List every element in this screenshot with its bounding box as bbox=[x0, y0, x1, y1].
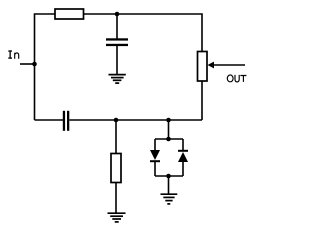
capacitor C1 bbox=[106, 38, 128, 46]
resistor R2 bbox=[111, 154, 121, 183]
node junction at In bbox=[32, 62, 37, 67]
wire diode bottom rail bbox=[155, 175, 183, 177]
wire left diode lower lead bbox=[154, 161, 156, 176]
wire right diode lower lead bbox=[182, 162, 184, 176]
wire right below potentiometer bbox=[201, 81, 203, 120]
node junction top (C1 tap) bbox=[115, 12, 120, 17]
wire input lead bbox=[20, 63, 35, 65]
wire diode pair top lead bbox=[168, 120, 170, 139]
wire right diode upper lead bbox=[182, 139, 184, 151]
diode D1 (cathode down) bbox=[150, 150, 160, 161]
potentiometer VR1 body bbox=[198, 52, 208, 82]
label In bbox=[8, 50, 12, 58]
ground under diodes bbox=[161, 194, 178, 204]
ground under C1 bbox=[109, 75, 126, 84]
node junction diode top rail bbox=[166, 137, 171, 142]
wiper arrow of VR1 bbox=[213, 64, 246, 66]
diode D2 (cathode up) bbox=[178, 151, 188, 162]
wire diode pair ground lead bbox=[168, 176, 170, 194]
wire C1 top lead bbox=[116, 14, 118, 39]
wire C1 bottom lead bbox=[116, 46, 118, 74]
ground under R2 bbox=[108, 213, 126, 222]
node junction at R2 tap bbox=[114, 118, 119, 123]
wire top-left segment bbox=[35, 14, 56, 120]
wire left diode upper lead bbox=[154, 139, 156, 150]
node junction at diode tap bbox=[166, 118, 171, 123]
wire diode top rail bbox=[155, 138, 183, 140]
wire R2 bottom lead bbox=[115, 183, 117, 214]
label OUT bbox=[227, 75, 246, 82]
wire bottom from C2 to right corner bbox=[69, 119, 202, 121]
wire bottom-left to C2 bbox=[35, 119, 64, 121]
node junction diode bottom rail bbox=[166, 174, 171, 179]
wire top from R1 to right corner bbox=[84, 14, 203, 52]
wire R2 top lead bbox=[115, 120, 117, 154]
resistor R1 bbox=[55, 9, 84, 19]
capacitor C2 (series) bbox=[63, 111, 70, 131]
